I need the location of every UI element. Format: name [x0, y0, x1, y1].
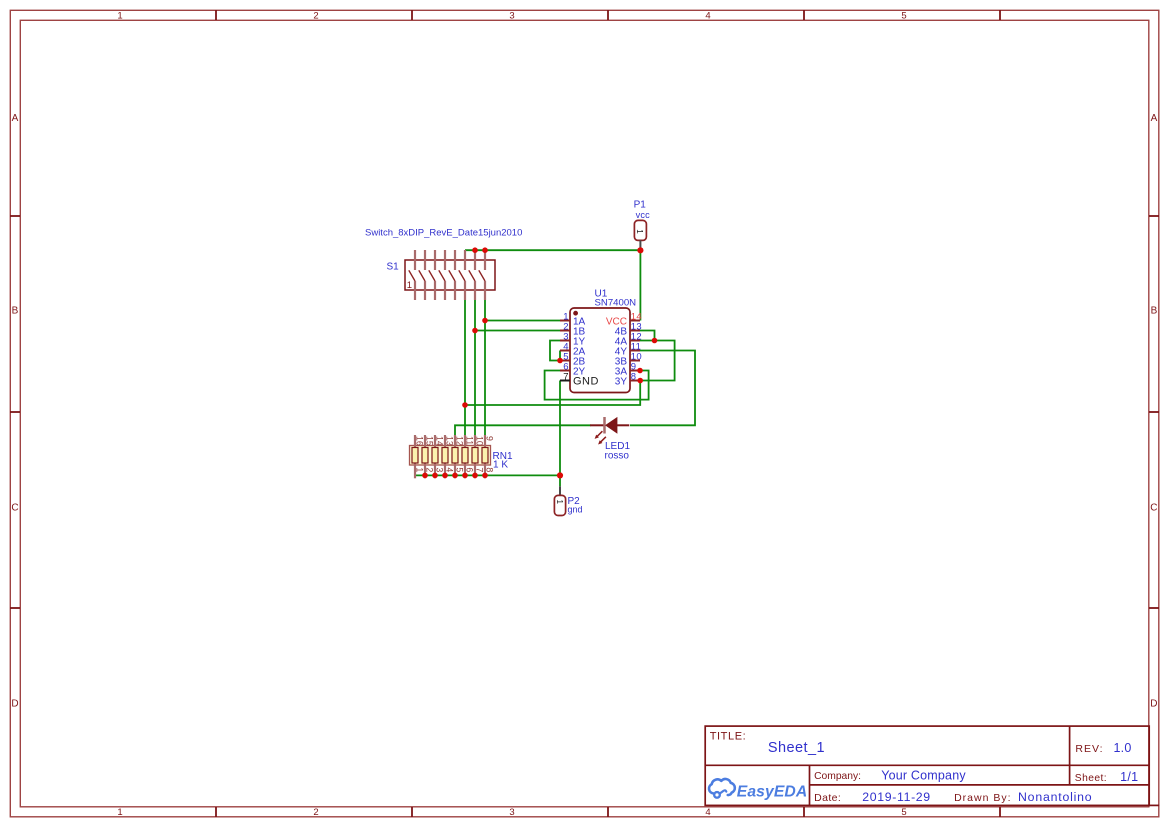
U1 pin 9 (3A)	[615, 361, 640, 377]
junction RN1 bottom pin 8	[482, 473, 488, 479]
svg-text:3: 3	[509, 10, 514, 21]
junction RN1 bottom pin 4	[442, 473, 448, 479]
svg-text:TITLE:: TITLE:	[710, 730, 747, 742]
svg-text:4: 4	[445, 467, 455, 472]
RN1 pin 14 (top)	[435, 435, 445, 449]
junction RN1 bottom pin 5	[452, 473, 458, 479]
svg-text:11: 11	[465, 436, 475, 445]
resistor RN1 element 7	[472, 448, 478, 464]
junction RN1 bottom pin 2	[422, 473, 428, 479]
svg-text:rosso: rosso	[605, 451, 630, 462]
resistor RN1 element 6	[462, 448, 468, 464]
svg-text:GND: GND	[573, 376, 599, 388]
U1 pin-1 mark	[573, 311, 578, 316]
U1 pin 13 (4B)	[615, 321, 642, 337]
U1 pin 6 (2Y)	[560, 361, 586, 377]
svg-text:gnd: gnd	[568, 504, 583, 514]
switch S1 pole 5	[449, 250, 455, 300]
svg-text:1: 1	[117, 10, 122, 21]
RN1 pin 8 (bottom)	[485, 462, 495, 479]
EasyEDA logo	[709, 779, 807, 800]
svg-text:4: 4	[705, 807, 710, 818]
junction S1 col7 top	[472, 247, 478, 253]
svg-text:EasyEDA: EasyEDA	[737, 783, 807, 800]
svg-text:P1: P1	[634, 200, 647, 211]
svg-text:5: 5	[455, 467, 465, 472]
svg-text:D: D	[1150, 699, 1157, 710]
P2 pin stub	[559, 486, 561, 495]
IC U1 body	[570, 308, 630, 393]
svg-text:5: 5	[901, 10, 906, 21]
RN1 pin 15 (top)	[425, 435, 435, 449]
svg-text:3Y: 3Y	[615, 377, 628, 388]
wire: branch to U1 pin 2 (1B)	[475, 330, 560, 332]
U1 pin 12 (4A)	[615, 331, 642, 347]
wire: RN1 common bus	[415, 474, 560, 476]
U1 pin 14 (VCC)	[606, 311, 642, 327]
switch S1 pole 8	[479, 250, 485, 300]
LED1 anode lead	[617, 424, 629, 426]
svg-text:Nonantolino: Nonantolino	[1018, 790, 1092, 804]
U1 pin 11 (4Y)	[615, 341, 642, 357]
svg-text:A: A	[1151, 113, 1158, 124]
wire: U1 pin 4 (2A) drop to pin 5	[559, 351, 561, 361]
RN1 pin 12 (top)	[455, 435, 465, 449]
RN1 pin 10 (top)	[475, 435, 485, 449]
svg-text:14: 14	[435, 436, 445, 446]
wire: U1 pin 7 GND down to P2	[559, 381, 561, 476]
U1 pin 1 (1A)	[560, 311, 586, 327]
junction col6 / 3Y net	[462, 402, 468, 408]
svg-text:5: 5	[901, 807, 906, 818]
P1 pin stub	[639, 240, 641, 248]
svg-text:1: 1	[555, 500, 564, 505]
RN1 pin 5 (bottom)	[455, 462, 465, 479]
switch S1 pole 7	[469, 250, 475, 300]
svg-text:7: 7	[475, 467, 485, 472]
svg-text:2: 2	[313, 10, 318, 21]
svg-text:1: 1	[407, 280, 412, 291]
resistor RN1 element 2	[422, 448, 428, 464]
wire: S1 col8 down to RN1 pin 9	[484, 300, 486, 435]
svg-text:7: 7	[563, 371, 568, 382]
switch S1 pole 2	[419, 250, 425, 300]
svg-text:C: C	[11, 502, 18, 513]
LED1 emission arrow 2	[600, 437, 606, 443]
switch S1 pole 4	[439, 250, 445, 300]
svg-text:4: 4	[705, 10, 710, 21]
svg-text:16: 16	[415, 436, 425, 446]
RN1 pin 11 (top)	[465, 435, 475, 449]
wire: U1 pin 3 (1Y) loop to pin 5 (2B)	[550, 341, 560, 361]
LED1 cathode bar	[603, 417, 606, 434]
svg-text:B: B	[1151, 306, 1158, 317]
wire: U1 pin 6 (2Y) to pin 9 (3A)	[545, 371, 649, 400]
resistor network RN1 outer body	[410, 446, 491, 466]
svg-text:Sheet:: Sheet:	[1075, 773, 1107, 784]
junction U1 pin 8	[637, 378, 643, 384]
wire: junction to P2 pin	[559, 475, 561, 486]
svg-text:1: 1	[117, 807, 122, 818]
RN1 pin 16 (top)	[415, 435, 425, 449]
U1 pin 7 (GND)	[560, 371, 599, 387]
wire: U1 pin 11 (4Y) to LED anode	[630, 351, 695, 426]
svg-text:2019-11-29: 2019-11-29	[862, 790, 931, 804]
svg-text:D: D	[11, 699, 18, 710]
svg-text:Company:: Company:	[814, 771, 861, 782]
svg-text:B: B	[12, 306, 19, 317]
wire: VCC rail from S1 to P1	[465, 249, 640, 251]
wire: LED cathode to RN1 pin 12	[455, 425, 591, 435]
resistor RN1 element 1	[412, 448, 418, 464]
svg-text:Date:: Date:	[814, 792, 841, 804]
svg-text:Drawn By:: Drawn By:	[954, 792, 1011, 804]
junction col8 / 1A	[482, 318, 488, 324]
connector P2 body	[554, 495, 565, 515]
svg-text:SN7400N: SN7400N	[595, 298, 637, 309]
wire: P1 down to U1 pin 14	[639, 250, 641, 320]
junction RN1 bottom pin 7	[472, 473, 478, 479]
svg-text:12: 12	[455, 436, 465, 446]
junction U1 pin 12 net	[652, 338, 658, 344]
LED1 triangle	[606, 418, 617, 433]
RN1 pin 4 (bottom)	[445, 462, 455, 479]
RN1 pin 9 (top)	[485, 435, 495, 449]
RN1 pin 3 (bottom)	[435, 462, 445, 479]
svg-text:1: 1	[415, 467, 425, 472]
U1 pin 3 (1Y)	[560, 331, 586, 347]
wire: U1 pin 13 (4B) link	[640, 331, 655, 341]
svg-text:C: C	[1150, 502, 1157, 513]
resistor RN1 element 8	[482, 448, 488, 464]
junction RN1 bottom pin 3	[432, 473, 438, 479]
svg-text:10: 10	[475, 436, 485, 446]
svg-text:8: 8	[631, 371, 637, 382]
wire: net to U1 pin 8 (3Y)	[465, 381, 640, 406]
switch S1 pole 6	[459, 250, 465, 300]
LED1 cathode lead	[590, 424, 604, 426]
svg-text:13: 13	[445, 436, 455, 446]
switch S1 pole 3	[429, 250, 435, 300]
RN1 pin 1 (bottom)	[415, 462, 425, 479]
svg-text:15: 15	[425, 436, 435, 446]
svg-text:Sheet_1: Sheet_1	[768, 740, 825, 756]
junction S1 col8 top	[482, 247, 488, 253]
resistor RN1 element 4	[442, 448, 448, 464]
U1 pin 4 (2A)	[560, 341, 586, 357]
LED1 emission arrow 1	[596, 431, 602, 437]
RN1 pin 6 (bottom)	[465, 462, 475, 479]
svg-text:1: 1	[635, 229, 644, 234]
junction U1 pin 5	[557, 358, 563, 364]
junction RN1 bottom pin 6	[462, 473, 468, 479]
U1 pin 10 (3B)	[615, 351, 642, 367]
junction at P1 pin	[637, 247, 643, 253]
svg-text:6: 6	[465, 467, 475, 472]
svg-text:1/1: 1/1	[1120, 770, 1138, 784]
svg-text:9: 9	[485, 436, 495, 441]
resistor RN1 element 5	[452, 448, 458, 464]
svg-text:3: 3	[509, 807, 514, 818]
wire: U1 pin 8 to pin 12 (4A)	[640, 341, 675, 381]
RN1 pin 2 (bottom)	[425, 462, 435, 479]
switch S1 body	[405, 260, 495, 290]
junction GND / RN1 bus	[557, 472, 563, 478]
svg-text:Switch_8xDIP_RevE_Date15jun201: Switch_8xDIP_RevE_Date15jun2010	[365, 228, 522, 239]
U1 pin 8 (3Y)	[615, 371, 640, 387]
U1 pin 5 (2B)	[560, 351, 586, 367]
svg-text:REV:: REV:	[1075, 743, 1103, 755]
svg-text:1 K: 1 K	[493, 460, 508, 471]
RN1 pin 13 (top)	[445, 435, 455, 449]
wire: S1 col6 down to RN1 pin 11	[464, 300, 466, 435]
wire: S1 col7 down to RN1 pin 10	[474, 300, 476, 435]
svg-text:1.0: 1.0	[1114, 741, 1132, 755]
RN1 pin 7 (bottom)	[475, 462, 485, 479]
resistor RN1 element 3	[432, 448, 438, 464]
svg-text:2: 2	[313, 807, 318, 818]
wire: branch to U1 pin 1 (1A)	[485, 320, 560, 322]
junction col7 / 1B	[472, 328, 478, 334]
svg-text:2: 2	[425, 467, 435, 472]
U1 pin 2 (1B)	[560, 321, 586, 337]
svg-text:Your Company: Your Company	[881, 768, 966, 782]
switch S1 pole 1	[409, 250, 415, 300]
svg-text:A: A	[12, 113, 19, 124]
svg-text:S1: S1	[387, 262, 400, 273]
title block	[705, 726, 1149, 805]
svg-text:vcc: vcc	[636, 210, 651, 220]
connector P1 body	[634, 220, 646, 240]
junction U1 pin 9	[637, 368, 643, 374]
svg-text:3: 3	[435, 467, 445, 472]
